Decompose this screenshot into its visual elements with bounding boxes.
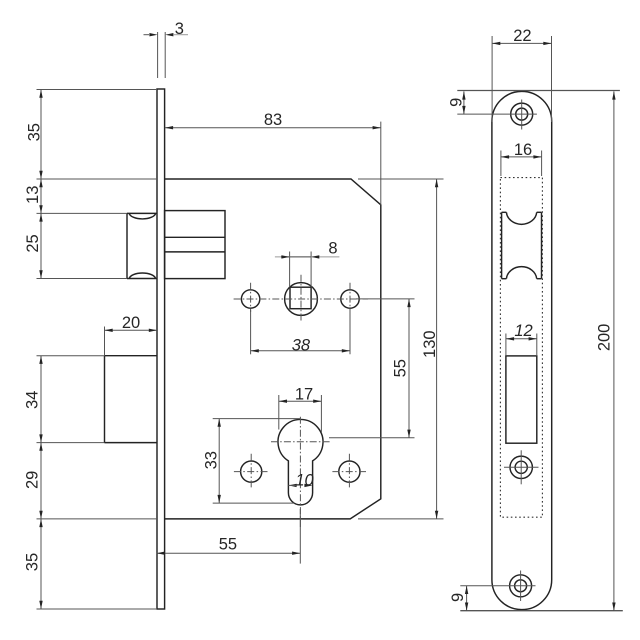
svg-text:130: 130 [421,330,439,358]
svg-text:35: 35 [26,123,44,141]
dimension 16 (latch opening width) [501,141,542,176]
dimension 34 [24,356,105,443]
dimension 13 [24,179,157,213]
deadbolt [105,356,158,443]
svg-text:38: 38 [292,336,311,354]
svg-text:8: 8 [328,239,337,257]
lock case body outline [165,179,381,519]
fixing hole right of follower [341,290,359,308]
svg-text:55: 55 [392,359,410,377]
dimension 8 (spindle square) [275,239,340,287]
cross centerlines of right cylinder hole [332,454,366,490]
dimension 35 (top) [26,90,158,180]
dimension 83 (case depth) [165,111,381,205]
dimension 130 (case height) [358,179,444,519]
latch bolt housing [165,211,225,279]
dimension 3 (faceplate thickness) [144,20,189,78]
centerline through follower and side holes [234,298,368,300]
svg-text:200: 200 [596,324,614,352]
top screw hole [457,100,537,130]
horizontal centerline of cylinder [271,441,330,443]
latch opening in face plate [502,212,542,278]
dimension 10 (cylinder stem) [288,472,314,490]
dimension 55 (centres distance) [329,299,415,438]
dimension 38 (hole spacing) [251,310,350,354]
faceplate (lock front plate, 3mm thick) [157,89,165,609]
svg-text:12: 12 [514,322,532,340]
svg-text:13: 13 [24,186,42,204]
bottom screw hole [460,571,535,602]
centerline below left follower hole [250,283,252,312]
dimension 12 (deadbolt opening width) [506,322,537,356]
latch bolt head [127,213,157,278]
deadbolt opening in face plate [506,356,537,443]
dimension 17 (cylinder width) [279,386,322,432]
dimension 25 [24,213,127,278]
fixing hole right of cylinder [339,461,360,482]
middle screw hole [504,450,539,484]
svg-text:83: 83 [264,111,282,129]
svg-text:9: 9 [449,593,467,602]
svg-text:17: 17 [295,386,313,404]
handle follower (square spindle hub) [285,283,318,316]
centerline below right follower hole [349,283,351,312]
dimension 29 [24,443,157,519]
dimension 9 (bottom) [449,586,469,611]
svg-text:3: 3 [175,20,184,38]
svg-text:22: 22 [513,27,531,45]
svg-text:35: 35 [24,553,42,571]
fixing hole left of follower [241,290,259,308]
dimension 35 (bottom) [24,519,157,609]
face plate outline (rounded ends) [492,91,552,609]
svg-text:34: 34 [24,391,42,409]
euro profile cylinder hole [278,419,323,504]
dotted lock case footprint [500,178,542,518]
dimension 200 (plate length) [460,91,623,610]
dimension 22 (plate width) [492,27,551,122]
cross centerlines of left cylinder hole [234,454,268,490]
fixing hole left of cylinder [241,461,262,482]
svg-text:16: 16 [514,141,532,159]
dimension 33 (cylinder height) [203,419,301,504]
svg-text:9: 9 [447,98,465,107]
vertical centerline of follower [300,275,302,322]
vertical centerline of cylinder [299,417,301,529]
svg-text:29: 29 [24,471,42,489]
svg-text:10: 10 [295,472,314,490]
dimension 55 (backset) [157,509,301,564]
dimension 20 (deadbolt throw) [105,314,158,356]
svg-text:20: 20 [122,314,140,332]
dimension 9 (top) [447,91,620,115]
svg-text:25: 25 [24,234,42,252]
svg-text:55: 55 [219,536,237,554]
svg-text:33: 33 [203,451,221,469]
